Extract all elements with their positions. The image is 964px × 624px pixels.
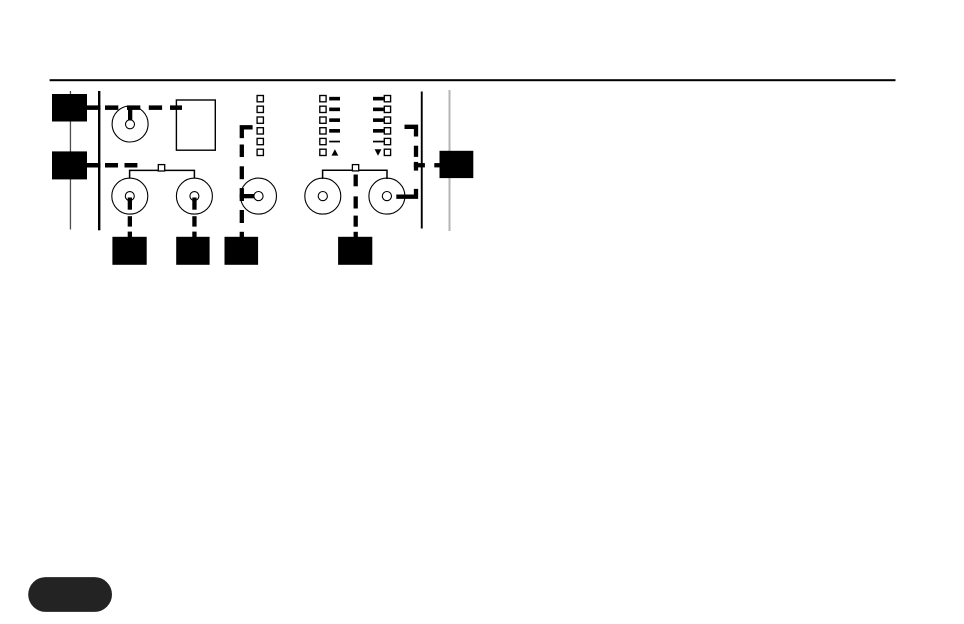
list column 2 squares (320, 96, 326, 156)
left thin vertical line (70, 91, 71, 230)
left dashed path vertical dashes (240, 145, 244, 238)
callout box D (below bracket of knobs 5-6) (338, 237, 372, 265)
knob 6 (369, 178, 405, 214)
right path top elbow (405, 127, 417, 137)
callout box B (below knob 3) (176, 237, 209, 265)
callout box 2 (left) (52, 151, 87, 179)
dashed lead knob 2 to box A (128, 216, 132, 237)
knob 2 (112, 178, 148, 214)
bottom pill (28, 577, 112, 612)
bracket node square (knobs 2-3) (158, 165, 164, 171)
list column 3 down triangle (375, 149, 382, 155)
bracket wires (knobs 2-3) (130, 170, 195, 178)
header rule (50, 79, 896, 81)
dashed lead from box 2 (87, 163, 137, 168)
right thin black vertical line (421, 92, 423, 229)
bracket node square (knobs 5-6) (352, 165, 358, 171)
callout box A (below knob 2) (112, 237, 146, 265)
knob 4 (241, 178, 277, 214)
list column 3 dashes (373, 97, 384, 143)
list column 3 squares (384, 96, 390, 156)
knob 5 (305, 178, 341, 214)
knob 4 pointer bar (240, 194, 257, 198)
callout box C (below knob 4) (225, 237, 259, 265)
knob 6 pointer and right path bottom elbow (396, 189, 416, 197)
display rectangle (176, 100, 215, 150)
dashed lead bracket to box D (354, 175, 358, 238)
right path short dash to box 6 (434, 163, 440, 167)
list column 1 squares (257, 96, 263, 156)
list column 2 up triangle (332, 149, 339, 155)
dashed lead from box 1 to display (87, 105, 182, 110)
right gray vertical line (449, 90, 451, 231)
knob 3 (176, 178, 212, 214)
list column 2 dashes (329, 97, 340, 143)
right path vertical dash (414, 146, 418, 157)
callout box 1 (top left) (52, 94, 87, 122)
knob 1 (upper) (112, 106, 148, 142)
right path mid cross (414, 162, 425, 171)
dashed lead knob 3 to box B (192, 216, 196, 237)
bracket wires (knobs 5-6) (323, 170, 387, 179)
left dashed path top elbow (242, 127, 253, 138)
callout box 6 (right) (440, 151, 474, 178)
left thick vertical line (98, 91, 100, 230)
